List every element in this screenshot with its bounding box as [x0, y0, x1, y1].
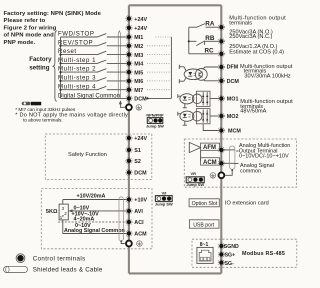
svg-text:0~10VDC/-10~+10V: 0~10VDC/-10~+10V [239, 154, 289, 160]
svg-text:SG+: SG+ [225, 253, 236, 259]
legend: control terminals [16, 254, 85, 263]
shield capsule (analog input) [119, 197, 123, 241]
wire: switch common bus vertical [60, 37, 62, 98]
terminal S1 [126, 147, 141, 154]
optocoupler U1 (DFM output) [179, 65, 219, 84]
svg-text:+24V: +24V [134, 17, 147, 23]
wire: +10V/20mA to +10V terminal [63, 194, 127, 204]
svg-text:DCM: DCM [134, 171, 147, 177]
terminal RC [218, 51, 224, 57]
wire: digital signal common row to DCM [58, 94, 127, 100]
svg-text:AVI: AVI [134, 209, 143, 215]
terminal S2 [126, 158, 141, 165]
switch S-Multi-step3 wire and lever (MI6) [58, 75, 127, 82]
wire: DCM row to option vertical [146, 97, 171, 99]
junction dots on switch bus [59, 45, 61, 91]
wire: pot bottom to common [62, 220, 64, 234]
terminal ACI [126, 219, 144, 226]
svg-text:+10V: +10V [134, 198, 147, 204]
relay annotation text [229, 15, 286, 55]
relay contact RA (N.O.) [189, 21, 219, 28]
terminal SG+ [218, 251, 235, 258]
svg-text:DCM: DCM [134, 97, 147, 103]
svg-text:DCM: DCM [227, 79, 240, 85]
svg-text:to above terminals.: to above terminals. [23, 117, 63, 123]
svg-text:Analog Signal Common: Analog Signal Common [64, 228, 125, 234]
svg-text:Option Slot: Option Slot [192, 201, 218, 207]
svg-text:Control terminals: Control terminals [33, 255, 86, 262]
earth symbol (analog input) [137, 241, 143, 247]
svg-text:REV/STOP: REV/STOP [58, 39, 93, 46]
wire: AFM to terminal [220, 149, 222, 151]
svg-text:MO2: MO2 [227, 114, 239, 120]
svg-text:Modbus RS-485: Modbus RS-485 [242, 251, 285, 257]
wire: capsule drain to donut [120, 240, 125, 243]
junction on relay bus [188, 40, 190, 42]
terminal MO2 [218, 113, 238, 120]
svg-text:PNP mode.: PNP mode. [4, 40, 36, 46]
svg-text:4~20mA: 4~20mA [74, 217, 95, 223]
shield terminal donut (digital) [126, 104, 132, 110]
wire: dotted leader MI7 [147, 89, 171, 91]
svg-text:MCM: MCM [228, 128, 241, 134]
earth symbol (analog output) [210, 173, 216, 179]
svg-text:Jump SW: Jump SW [186, 182, 204, 187]
svg-text:MI5: MI5 [134, 70, 143, 76]
terminal MI2 [126, 43, 144, 50]
svg-text:Multi-step 1: Multi-step 1 [58, 57, 96, 64]
terminal +24V (top 1) [126, 16, 148, 23]
svg-text:S2: S2 [134, 159, 141, 165]
svg-text:Safety Function: Safety Function [68, 152, 107, 158]
wire: left vertical trunk [128, 5, 130, 273]
svg-text:Factory setting: NPN (SINK) Mo: Factory setting: NPN (SINK) Mode [4, 11, 102, 17]
svg-text:RC: RC [205, 47, 215, 54]
resistor VR1 5K potentiometer [46, 204, 68, 220]
terminal ACM [126, 230, 147, 237]
svg-text:MO1: MO1 [227, 97, 239, 103]
note paragraph top-left [4, 11, 102, 46]
wire: shield drain arrow to DCM [119, 100, 126, 107]
wire: ACI dashed [58, 217, 127, 229]
terminal DCM (safety) [126, 169, 147, 176]
box: analog output (dashed) [184, 139, 296, 187]
terminal ACM (analog out) [218, 160, 224, 166]
svg-text:+10V/20mA: +10V/20mA [77, 194, 106, 200]
svg-text:MI7: MI7 [134, 88, 143, 94]
svg-text:NPN/PNP: NPN/PNP [146, 112, 164, 117]
wire: bottom bus joining trunks [129, 272, 221, 274]
switch S-Multi-step4 wire and lever (MI7) [58, 83, 127, 90]
box: Option Slot [189, 199, 269, 207]
wire: NPN common line with up arrow [118, 31, 120, 99]
jumper NPN/PNP SW1 [146, 112, 164, 128]
wire: right vertical trunk [220, 5, 222, 273]
svg-text:of NPN mode and: of NPN mode and [4, 33, 55, 39]
terminal MI7 [126, 87, 144, 94]
node ACM label box [201, 158, 220, 166]
shield terminal donut (analog output) [219, 172, 225, 178]
legend: shielded leads icon [4, 266, 103, 273]
svg-text:V/I: V/I [162, 191, 167, 196]
terminal MCM [218, 127, 241, 134]
svg-text:Factory: Factory [29, 56, 52, 63]
wire: dotted leader MI1 [156, 36, 172, 38]
wire: emitter bus to MCM [203, 124, 219, 131]
svg-text:Please refer to: Please refer to [4, 18, 46, 24]
terminal RA [218, 24, 224, 30]
svg-text:common: common [240, 168, 261, 174]
shield capsule (analog output) [230, 146, 235, 169]
analog output annotation [239, 143, 291, 174]
switch S-FWD wire and lever (MI1) [58, 31, 127, 38]
MO annotation text [240, 99, 293, 114]
terminal +24V (safety) [126, 135, 148, 142]
svg-text:30V/30mA 100kHz: 30V/30mA 100kHz [244, 73, 291, 79]
note bullet lines [15, 107, 128, 123]
svg-text:RA: RA [205, 21, 215, 28]
wire: dotted leader MI3 [147, 54, 171, 56]
terminal MI4 [126, 60, 144, 67]
svg-text:SG-: SG- [225, 261, 234, 267]
op-amp A1 (AFM buffer) [189, 142, 200, 152]
svg-text:MI1: MI1 [134, 35, 143, 41]
terminal SGND [218, 243, 239, 250]
svg-text:RB: RB [205, 35, 215, 42]
terminal +24V (top 2) [126, 25, 148, 32]
svg-text:ACM: ACM [134, 232, 147, 238]
node AFM label box [201, 143, 220, 151]
svg-text:MI3: MI3 [134, 53, 143, 59]
jumper V/I SW2 [155, 191, 173, 207]
terminal MO1 [218, 95, 238, 102]
svg-text:VR: VR [190, 171, 196, 176]
switch S-REV wire and lever (MI2) [58, 39, 127, 46]
wire: dotted leader MI6 [147, 80, 171, 82]
terminal MI6 [126, 78, 144, 85]
svg-text:FWD/STOP: FWD/STOP [58, 31, 94, 38]
svg-text:NOTE: NOTE [32, 102, 41, 106]
terminal AVI [126, 208, 144, 215]
svg-text:8~1: 8~1 [200, 242, 209, 248]
wire: triangle to ACM box [200, 150, 202, 161]
switch S-Multi-step2 wire and lever (MI5) [58, 66, 127, 73]
wire: analog signal common to ACM [63, 228, 127, 234]
svg-text:AFM: AFM [203, 145, 216, 151]
svg-text:DFM: DFM [227, 65, 239, 71]
switch S-Reset wire and lever (MI3) [58, 48, 127, 55]
svg-text:Jump SW: Jump SW [155, 202, 173, 207]
terminal MI1 [126, 34, 144, 41]
terminal RB [218, 38, 224, 44]
connector J1 RJ45 [197, 242, 213, 264]
wire: dotted leader MI2 [147, 45, 171, 47]
terminal SG- [218, 260, 234, 267]
svg-text:Digital Signal Common: Digital Signal Common [58, 94, 120, 100]
svg-text:MI2: MI2 [134, 44, 143, 50]
svg-text:terminals: terminals [229, 20, 252, 26]
terminal DCM (digital) [126, 95, 147, 102]
terminal AFM [218, 147, 224, 153]
earth symbol (digital) [136, 105, 142, 111]
icon: NOTE [22, 102, 42, 106]
svg-text:+24V: +24V [134, 26, 147, 32]
DFM annotation text [240, 64, 293, 79]
switch S-Multi-step1 wire and lever (MI4) [58, 57, 127, 64]
svg-text:MI6: MI6 [134, 79, 143, 85]
svg-text:Multi-step 3: Multi-step 3 [58, 75, 96, 82]
box: Safety Function (dashed) [45, 134, 152, 180]
svg-text:ACM: ACM [203, 160, 217, 166]
shield terminal donut (analog input) [126, 241, 132, 247]
svg-text:Figure 2 for wiring: Figure 2 for wiring [4, 25, 57, 31]
svg-text:250Vac/3A (N.C.): 250Vac/3A (N.C.) [229, 34, 272, 40]
box: USB port [189, 220, 219, 229]
wire: AVI with arrow into pot wiper [68, 206, 126, 218]
brace: factory setting group [53, 31, 57, 102]
svg-text:USB port: USB port [193, 223, 215, 229]
terminal DCM (output) [218, 78, 239, 85]
jumper VR SW3 [186, 171, 204, 187]
svg-text:ACI: ACI [134, 220, 144, 226]
svg-text:5KΩ: 5KΩ [46, 209, 58, 215]
terminal DFM [218, 64, 238, 71]
terminal MI5 [126, 69, 144, 76]
terminal +10V [126, 196, 148, 203]
relay wire RC [189, 47, 219, 54]
optocoupler U2 (MO1 output) [178, 91, 219, 108]
svg-text:IO extension card: IO extension card [225, 200, 269, 206]
wire: dotted leader MI4 [147, 62, 171, 64]
svg-text:Estimate at COS (0.4): Estimate at COS (0.4) [229, 49, 284, 55]
svg-text:SGND: SGND [224, 244, 239, 250]
optocoupler U3 (MO2 output) [178, 109, 219, 126]
terminal MI3 [126, 52, 144, 59]
svg-text:Shielded leads & Cable: Shielded leads & Cable [33, 267, 103, 274]
svg-text:setting: setting [29, 64, 50, 71]
svg-text:48V/50mA: 48V/50mA [240, 108, 266, 114]
relay common bus [188, 27, 190, 54]
leader lines to annotation [236, 150, 238, 152]
wire: capsule drain to donut (right) [225, 169, 233, 175]
wire: dotted leader MI5 [147, 71, 171, 73]
wire: top bus from left trunk to right trunk [129, 4, 221, 6]
svg-text:Multi-step 2: Multi-step 2 [58, 66, 96, 73]
svg-text:+24V: +24V [134, 136, 147, 142]
svg-text:MI4: MI4 [134, 62, 143, 68]
relay contact RB (N.C.) [189, 35, 219, 46]
svg-text:Multi-step 4: Multi-step 4 [58, 83, 96, 90]
wire: option vertical collector [170, 37, 172, 98]
box: RS-485 (dashed) [192, 239, 297, 267]
box: analog input (dashed) [41, 189, 152, 249]
wire: ACM to terminal and through capsule [220, 162, 235, 164]
svg-text:S1: S1 [134, 148, 141, 154]
svg-text:Jump SW: Jump SW [146, 124, 164, 129]
